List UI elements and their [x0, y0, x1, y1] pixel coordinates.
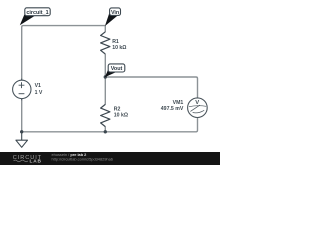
svg-text:http://circuitlab.com/c/5pd348: http://circuitlab.com/c/5pd34829ha6	[52, 157, 113, 162]
wire: voltmeter bottom stub to bottom rail	[22, 117, 198, 131]
voltmeter VM1	[188, 98, 208, 118]
wire: Vout rail to voltmeter branch	[105, 77, 197, 98]
svg-text:R1: R1	[112, 39, 119, 45]
footer logo wave	[14, 160, 28, 162]
svg-text:LAB: LAB	[30, 158, 42, 164]
wire: R1 bottom to Vout node and on to R2 top	[104, 54, 106, 105]
node label Vout	[105, 64, 125, 77]
resistor R1	[101, 32, 110, 54]
footer bar	[0, 152, 220, 165]
node: junction dot at ground rail / V1	[20, 130, 23, 133]
voltage source V1	[13, 79, 31, 101]
node: junction dot at R2 bottom	[104, 130, 107, 133]
svg-text:VM1: VM1	[173, 100, 184, 106]
ground	[16, 132, 28, 148]
resistor R2	[101, 104, 110, 126]
svg-text:V: V	[195, 100, 199, 106]
label V1 value	[35, 83, 43, 96]
label VM1 value	[161, 100, 184, 112]
svg-text:Vout: Vout	[111, 66, 123, 72]
svg-text:R2: R2	[114, 107, 121, 113]
svg-text:circuit_1: circuit_1	[26, 10, 48, 16]
wire: R2 bottom stub to bottom rail	[104, 127, 106, 132]
node: junction dot at Vout	[104, 75, 107, 78]
wire: V1 bottom to ground node	[21, 98, 23, 132]
svg-text:10 kΩ: 10 kΩ	[114, 113, 128, 119]
node label Vin	[105, 8, 121, 26]
svg-text:10 kΩ: 10 kΩ	[112, 45, 126, 51]
svg-text:V1: V1	[35, 83, 41, 89]
svg-text:497.5 mV: 497.5 mV	[161, 106, 184, 112]
svg-text:Vin: Vin	[111, 10, 119, 16]
label R1 value	[112, 39, 126, 51]
node label circuit_1	[20, 8, 50, 26]
wire: top rail from V1 up and across to R1 branch	[22, 26, 106, 81]
svg-text:1 V: 1 V	[35, 90, 43, 96]
label R2 value	[114, 107, 128, 119]
wire: R1 top stub	[104, 26, 106, 32]
